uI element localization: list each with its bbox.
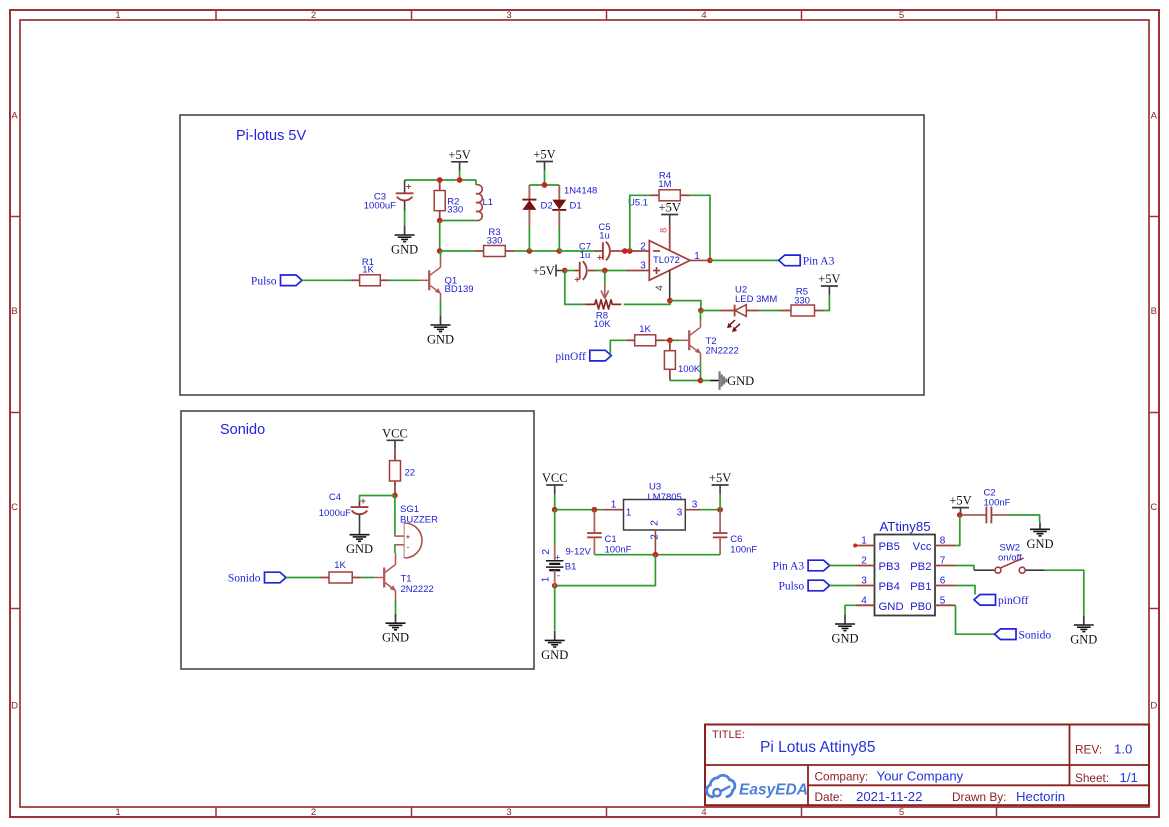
wire fb left vertical xyxy=(630,195,650,251)
svg-text:GND: GND xyxy=(727,374,754,388)
transistor Q1 xyxy=(428,270,430,290)
svg-text:GND: GND xyxy=(879,601,904,613)
wire C3 to GND xyxy=(404,210,406,226)
svg-text:1: 1 xyxy=(115,807,120,818)
wire L1 bottom to R2 bottom xyxy=(440,220,476,222)
svg-text:1M: 1M xyxy=(658,179,671,190)
svg-text:Pulso: Pulso xyxy=(251,276,277,288)
svg-text:330: 330 xyxy=(487,236,503,247)
switch SW2 xyxy=(974,569,995,571)
svg-text:B: B xyxy=(11,306,17,317)
svg-text:1000uF: 1000uF xyxy=(319,508,351,519)
ground (C4) xyxy=(359,534,361,536)
U3 pin 3 stub xyxy=(685,509,700,511)
junction a xyxy=(622,248,628,254)
wire junction to buzzer xyxy=(394,496,396,537)
svg-text:7: 7 xyxy=(940,556,946,567)
block box Sonido xyxy=(181,411,534,669)
svg-text:C: C xyxy=(1150,502,1157,513)
resistor 100K leads xyxy=(669,340,671,350)
resistor 100K xyxy=(664,351,675,370)
wire T1 emitter down xyxy=(395,600,397,617)
junction +5V/R8 left xyxy=(562,268,568,274)
svg-text:2: 2 xyxy=(861,556,867,567)
wire Q1 emitter to gnd xyxy=(440,300,442,316)
svg-text:LM7805: LM7805 xyxy=(648,492,682,503)
svg-text:3: 3 xyxy=(506,10,511,21)
junction +5V out xyxy=(717,507,723,513)
junction C1 top xyxy=(592,507,598,513)
svg-text:Pin A3: Pin A3 xyxy=(772,561,804,573)
LED U2 anode lead xyxy=(719,310,735,312)
wire Q1 collector to node xyxy=(440,251,442,258)
svg-text:2021-11-22: 2021-11-22 xyxy=(856,789,922,804)
wire T2 emitter down xyxy=(700,362,702,381)
wire R2 bottom to base rail xyxy=(439,221,441,252)
wire D1 to node xyxy=(558,226,560,251)
wire rail down to battery rail xyxy=(555,555,656,586)
svg-text:1: 1 xyxy=(861,536,867,547)
wire 1K to T2 base xyxy=(665,339,680,341)
resistor 1K (T2 base) leads xyxy=(626,339,635,341)
op-amp pin 3 stub xyxy=(626,270,649,272)
svg-text:+: + xyxy=(406,182,412,193)
svg-text:+5V: +5V xyxy=(532,264,554,278)
svg-text:pinOff: pinOff xyxy=(998,595,1029,607)
svg-text:5: 5 xyxy=(899,807,904,818)
battery B1 xyxy=(554,545,556,561)
wire pin4 node right xyxy=(670,301,701,311)
junction collector node xyxy=(437,248,443,254)
wire from +5V flag to top rail xyxy=(459,170,461,180)
svg-text:1u: 1u xyxy=(580,250,591,261)
LED U2 xyxy=(734,305,736,317)
wire +5V to diode top rail xyxy=(544,170,546,185)
D1 top lead xyxy=(558,185,560,200)
wire R8 left leg xyxy=(565,271,585,305)
resistor 22 leads xyxy=(394,449,396,460)
svg-text:3: 3 xyxy=(506,807,511,818)
wire pin7 to switch xyxy=(956,566,974,571)
C3 bottom lead xyxy=(404,201,406,211)
wire 1K to T1 base xyxy=(361,577,374,579)
net port Pulso xyxy=(281,275,303,286)
svg-text:Your Company: Your Company xyxy=(877,769,964,784)
svg-text:+5V: +5V xyxy=(659,201,681,215)
T2 collector wire xyxy=(700,320,702,327)
svg-text:6: 6 xyxy=(940,576,946,587)
svg-text:C: C xyxy=(11,502,18,513)
svg-text:C4: C4 xyxy=(329,492,341,503)
C5 left lead xyxy=(595,250,603,252)
svg-text:1: 1 xyxy=(626,508,632,519)
wire LED to R5 xyxy=(760,310,780,312)
svg-text:+: + xyxy=(406,533,411,542)
ground (battery) xyxy=(554,630,556,640)
junction b xyxy=(627,248,633,254)
resistor 1K (T1 base) leads xyxy=(320,577,329,579)
op-amp pin 8 lead xyxy=(669,215,671,224)
C2 left lead xyxy=(960,514,987,516)
svg-text:TITLE:: TITLE: xyxy=(712,729,745,741)
svg-text:+5V: +5V xyxy=(533,148,555,162)
resistor R2 xyxy=(434,191,445,211)
U3 pin 2 stub xyxy=(654,530,656,555)
svg-text:PB1: PB1 xyxy=(910,581,931,593)
op-amp U5.1 TL072 xyxy=(649,241,690,281)
svg-text:1K: 1K xyxy=(362,265,374,276)
ground (mcu) xyxy=(844,615,846,624)
svg-text:PB4: PB4 xyxy=(879,581,900,593)
svg-text:PB2: PB2 xyxy=(910,561,931,573)
svg-text:PB0: PB0 xyxy=(910,601,931,613)
svg-text:Drawn By:: Drawn By: xyxy=(952,790,1006,804)
junction battery minus xyxy=(552,583,558,589)
svg-text:Date:: Date: xyxy=(815,790,843,804)
ground (SW2) xyxy=(1083,616,1085,625)
svg-text:Pulso: Pulso xyxy=(779,581,805,593)
IC ATtiny85 body xyxy=(875,535,936,616)
svg-text:Vcc: Vcc xyxy=(913,541,932,553)
junction U3 pin2 xyxy=(653,552,659,558)
capacitor C1 xyxy=(587,532,602,534)
svg-text:BD139: BD139 xyxy=(445,284,474,295)
svg-text:3: 3 xyxy=(640,260,646,271)
wire Sonido to 1K xyxy=(286,577,320,579)
op-amp pin 1 stub xyxy=(690,259,710,261)
svg-text:+5V: +5V xyxy=(949,494,971,508)
svg-text:3: 3 xyxy=(677,508,683,519)
D1 bottom lead xyxy=(558,210,560,226)
C7 right lead xyxy=(588,270,596,272)
svg-text:2: 2 xyxy=(311,807,316,818)
svg-text:100nF: 100nF xyxy=(730,544,757,555)
svg-text:2: 2 xyxy=(650,520,661,526)
net port Sonido xyxy=(265,572,287,583)
wire mcu gnd wire xyxy=(845,605,856,615)
junction T2 collector node xyxy=(698,308,704,314)
LED cathode lead xyxy=(746,310,760,312)
transistor T1 xyxy=(383,568,385,588)
svg-text:1: 1 xyxy=(611,500,617,511)
wire battery top lead xyxy=(554,510,556,545)
svg-text:BUZZER: BUZZER xyxy=(400,515,438,526)
net port pinOff xyxy=(590,350,612,361)
svg-text:GND: GND xyxy=(1026,537,1053,551)
wire battery minus down xyxy=(554,586,556,630)
junction at +5V stub xyxy=(457,177,463,183)
wire gnd rail xyxy=(594,554,720,556)
capacitor C6 xyxy=(713,532,728,534)
svg-text:+5V: +5V xyxy=(709,471,731,485)
wire L1 top lead xyxy=(475,180,477,185)
T1 collector wire xyxy=(395,553,397,565)
pin1 unconnected dot xyxy=(853,544,857,548)
svg-text:Company:: Company: xyxy=(815,770,869,784)
svg-text:330: 330 xyxy=(447,205,463,216)
svg-text:A: A xyxy=(11,111,18,122)
wire T2 collector up xyxy=(700,311,702,321)
svg-text:2: 2 xyxy=(640,241,646,252)
capacitor C7 xyxy=(579,262,581,279)
svg-text:pinOff: pinOff xyxy=(555,351,586,363)
svg-text:U3: U3 xyxy=(649,482,661,493)
wire C1 top stub xyxy=(593,510,595,513)
svg-text:VCC: VCC xyxy=(542,471,568,485)
ground (Q1) xyxy=(440,316,442,325)
R8 wiper arrow xyxy=(604,271,606,284)
svg-text:Sonido: Sonido xyxy=(1019,629,1052,641)
junction D1 bottom xyxy=(556,248,562,254)
svg-text:GND: GND xyxy=(391,243,418,257)
svg-text:8: 8 xyxy=(940,536,946,547)
svg-text:22: 22 xyxy=(405,468,416,479)
svg-text:+5V: +5V xyxy=(448,148,470,162)
svg-text:VCC: VCC xyxy=(382,426,408,440)
junction C4/buzzer xyxy=(392,493,398,499)
wire C7 to pin3 xyxy=(596,270,626,272)
svg-text:2: 2 xyxy=(541,549,552,555)
resistor 22 xyxy=(390,461,401,481)
capacitor C3 xyxy=(396,192,414,194)
svg-text:GND: GND xyxy=(541,648,568,662)
title block xyxy=(705,725,1149,806)
wire switch to gnd xyxy=(1045,570,1084,616)
C7 left lead xyxy=(575,270,580,272)
junction 100K top xyxy=(667,337,673,343)
wire U3 pin3 to +5V node xyxy=(700,509,720,511)
svg-text:330: 330 xyxy=(794,296,810,307)
svg-text:D2: D2 xyxy=(541,201,553,212)
resistor R3 leads xyxy=(475,250,484,252)
resistor 1K (T1 base) xyxy=(329,572,352,583)
Q1 collector wire xyxy=(440,258,442,267)
svg-text:1: 1 xyxy=(541,576,552,582)
wire R5 to +5V xyxy=(824,295,830,311)
gnd stub xyxy=(710,380,719,382)
wire node to LED xyxy=(701,310,719,312)
svg-text:1/1: 1/1 xyxy=(1120,770,1138,785)
junction pin4 xyxy=(667,298,673,304)
capacitor C4 xyxy=(351,506,369,508)
U3 pin 1 stub xyxy=(603,509,624,511)
svg-text:Pin A3: Pin A3 xyxy=(803,256,835,268)
junction emitter/gnd xyxy=(698,378,704,384)
junction wiper xyxy=(602,268,608,274)
svg-text:1000uF: 1000uF xyxy=(364,200,396,211)
C5 right lead to op-amp pin 2 xyxy=(611,250,649,252)
op-amp pin 4 lead xyxy=(669,270,671,300)
wire +5V up xyxy=(719,494,721,510)
wire mcu 5v stub xyxy=(960,515,962,517)
wire C2 to gnd xyxy=(1009,515,1040,522)
svg-text:5: 5 xyxy=(940,595,946,606)
wire pin6 wire xyxy=(956,586,976,595)
svg-text:Sonido: Sonido xyxy=(228,573,261,585)
wire output to Pin A3 xyxy=(710,259,779,261)
junction output xyxy=(707,258,713,264)
net port Pin A3 xyxy=(779,255,801,266)
buzzer SG1 xyxy=(394,535,404,537)
svg-text:GND: GND xyxy=(427,333,454,347)
transistor T2 xyxy=(688,330,690,350)
svg-text:9-12V: 9-12V xyxy=(566,547,592,558)
resistor R1 leads xyxy=(351,279,360,281)
wire node to C5 xyxy=(559,250,594,252)
svg-text:8: 8 xyxy=(658,228,668,233)
wire pinOff up xyxy=(610,340,625,354)
wire Pulso wire xyxy=(830,585,856,587)
diode D2 xyxy=(522,199,536,201)
junction at R2 top xyxy=(437,177,443,183)
C4 bottom lead xyxy=(359,515,361,535)
wire D2 to node xyxy=(528,226,530,251)
svg-text:U5.1: U5.1 xyxy=(628,198,648,209)
svg-text:Hectorin: Hectorin xyxy=(1016,789,1065,804)
wire VCC down xyxy=(554,494,556,510)
regulator U3 LM7805 body xyxy=(624,500,686,531)
wire top rail C3 to L1 xyxy=(405,179,476,181)
wire R3 to diode node xyxy=(514,250,559,252)
svg-text:TL072: TL072 xyxy=(653,255,680,266)
net port pinOff (mcu) xyxy=(974,595,996,606)
C4 top lead xyxy=(359,501,361,507)
svg-text:1: 1 xyxy=(115,10,120,21)
svg-text:C6: C6 xyxy=(730,534,742,545)
svg-text:+5V: +5V xyxy=(818,272,840,286)
svg-text:3: 3 xyxy=(692,500,698,511)
resistor R2 leads xyxy=(439,180,441,191)
resistor R1 xyxy=(360,275,381,286)
block box Pi-lotus 5V xyxy=(180,115,924,395)
diode D1 xyxy=(552,200,566,210)
svg-text:100nF: 100nF xyxy=(984,498,1011,509)
svg-text:+: + xyxy=(360,496,366,507)
svg-text:A: A xyxy=(1151,111,1158,122)
svg-text:PB3: PB3 xyxy=(879,561,900,573)
Q1 emitter wire xyxy=(440,293,442,300)
net port Pulso (mcu) xyxy=(808,580,830,591)
svg-text:GND: GND xyxy=(382,631,409,645)
svg-text:Sonido: Sonido xyxy=(220,422,265,438)
EasyEDA logo xyxy=(707,775,735,797)
junction D2 bottom xyxy=(527,248,533,254)
svg-text:C1: C1 xyxy=(605,534,617,545)
svg-text:2N2222: 2N2222 xyxy=(401,584,434,595)
svg-text:ATtiny85: ATtiny85 xyxy=(879,519,930,534)
wire R8 right leg xyxy=(624,301,670,305)
svg-text:T1: T1 xyxy=(401,574,412,585)
svg-text:Sheet:: Sheet: xyxy=(1075,771,1109,785)
svg-text:GND: GND xyxy=(346,542,373,556)
junction R2/L1 bottom xyxy=(437,218,443,224)
resistor R3 xyxy=(484,246,506,257)
inductor L1 xyxy=(476,185,482,221)
net port Sonido (mcu) xyxy=(995,629,1017,640)
svg-text:Pi-lotus 5V: Pi-lotus 5V xyxy=(236,128,306,144)
resistor R4 leads xyxy=(650,194,659,196)
LED arrows xyxy=(728,320,735,326)
resistor R5 leads xyxy=(780,310,791,312)
capacitor C3 top lead xyxy=(404,180,406,193)
svg-text:GND: GND xyxy=(831,632,858,646)
wire to gnd flag xyxy=(701,380,711,382)
svg-text:4: 4 xyxy=(861,595,867,606)
svg-text:PB5: PB5 xyxy=(879,541,900,553)
wire buzzer to T1 collector xyxy=(394,545,396,553)
resistor R5 xyxy=(791,305,815,316)
resistor 1K (T2 base) xyxy=(635,335,656,346)
junction mcu 5V xyxy=(957,512,963,518)
wire PinA3 wire xyxy=(830,565,856,567)
svg-text:2N2222: 2N2222 xyxy=(706,346,739,357)
ground (C3) xyxy=(404,226,406,235)
svg-text:on/off: on/off xyxy=(998,553,1022,564)
wire pin5 wire xyxy=(956,605,995,634)
ground (C2) xyxy=(1039,522,1041,529)
wire collector node to R3 xyxy=(440,250,475,252)
svg-text:4: 4 xyxy=(701,807,706,818)
svg-text:1u: 1u xyxy=(599,231,610,242)
T2 emitter wire xyxy=(700,353,702,362)
svg-text:1K: 1K xyxy=(639,324,651,335)
wire pin8 wire xyxy=(956,515,960,546)
svg-text:1K: 1K xyxy=(334,560,346,571)
svg-text:LED 3MM: LED 3MM xyxy=(735,294,777,305)
svg-text:1N4148: 1N4148 xyxy=(564,186,597,197)
svg-text:D: D xyxy=(1150,701,1157,712)
wire 100K bottom to emitter node xyxy=(670,380,701,382)
svg-text:-: - xyxy=(557,570,560,580)
svg-text:+: + xyxy=(555,553,560,563)
svg-text:100nF: 100nF xyxy=(605,544,632,555)
svg-text:100K: 100K xyxy=(678,364,701,375)
C2 right lead xyxy=(991,514,1009,516)
resistor R4 xyxy=(659,190,680,201)
svg-text:10K: 10K xyxy=(594,319,612,330)
svg-text:EasyEDA: EasyEDA xyxy=(739,782,808,799)
junction diode rail xyxy=(542,182,548,188)
wire 5V flag to C7 xyxy=(562,270,565,272)
svg-text:D: D xyxy=(11,701,18,712)
svg-text:3: 3 xyxy=(861,576,867,587)
svg-text:SG1: SG1 xyxy=(400,504,419,515)
wire to C7 left xyxy=(565,270,575,272)
svg-text:1.0: 1.0 xyxy=(1114,742,1132,757)
wire R1 to Q1 base xyxy=(389,279,419,281)
svg-text:4: 4 xyxy=(655,285,666,291)
svg-text:B1: B1 xyxy=(565,562,577,573)
svg-text:L1: L1 xyxy=(483,197,494,208)
wire VCC node to U3 pin1 xyxy=(555,509,603,511)
capacitor C5 xyxy=(602,242,604,259)
ground (T2, sideways) xyxy=(718,371,720,389)
svg-text:Pi Lotus Attiny85: Pi Lotus Attiny85 xyxy=(760,739,875,756)
svg-text:2: 2 xyxy=(311,10,316,21)
capacitor C2 xyxy=(985,507,987,524)
junction VCC node xyxy=(552,507,558,513)
D2 bottom lead xyxy=(528,210,530,226)
svg-text:REV:: REV: xyxy=(1075,743,1102,757)
svg-text:4: 4 xyxy=(701,10,706,21)
wire C6 top stub xyxy=(719,510,721,513)
wire to C4 xyxy=(360,496,395,502)
svg-text:5: 5 xyxy=(899,10,904,21)
svg-text:GND: GND xyxy=(1070,633,1097,647)
ATtiny85 left pin stubs xyxy=(856,545,875,547)
svg-text:D1: D1 xyxy=(570,201,582,212)
ground (T1) xyxy=(395,614,397,623)
